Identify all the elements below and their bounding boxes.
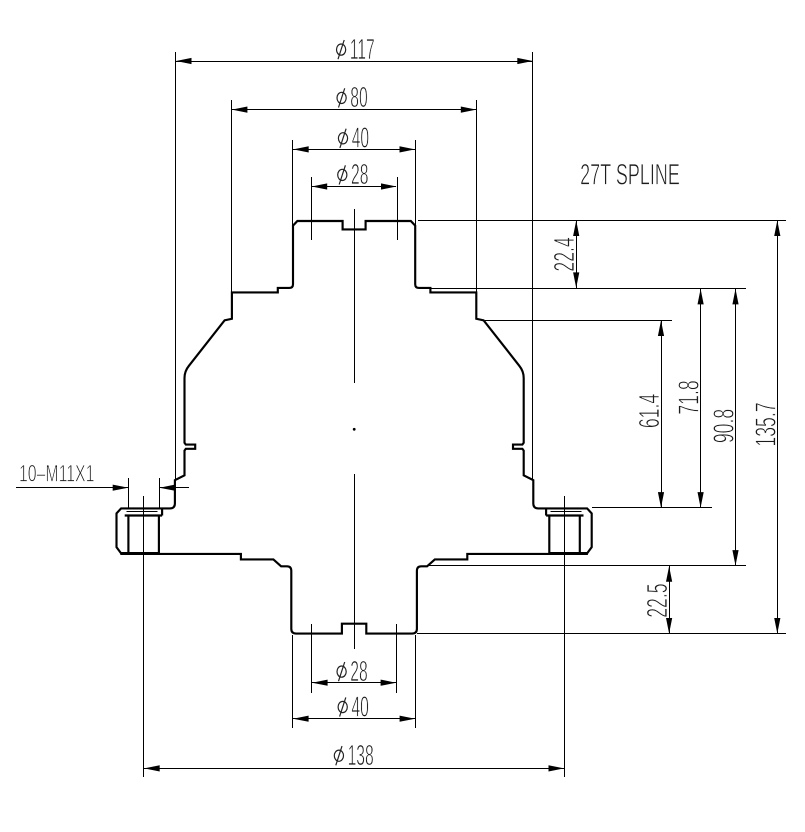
- svg-text:138: 138: [348, 739, 374, 771]
- svg-text:28: 28: [350, 655, 367, 687]
- svg-text:22.5: 22.5: [643, 583, 674, 617]
- svg-text:135.7: 135.7: [751, 402, 782, 446]
- svg-text:90.8: 90.8: [709, 409, 740, 443]
- svg-text:40: 40: [351, 690, 368, 722]
- svg-text:117: 117: [350, 33, 375, 65]
- svg-text:61.4: 61.4: [635, 394, 666, 428]
- svg-text:71.8: 71.8: [675, 380, 706, 414]
- svg-text:28: 28: [351, 158, 368, 190]
- svg-text:40: 40: [352, 122, 369, 154]
- svg-text:27T SPLINE: 27T SPLINE: [580, 159, 680, 192]
- svg-text:22.4: 22.4: [550, 237, 581, 271]
- svg-text:10–M11X1: 10–M11X1: [19, 461, 94, 487]
- svg-text:80: 80: [350, 81, 367, 113]
